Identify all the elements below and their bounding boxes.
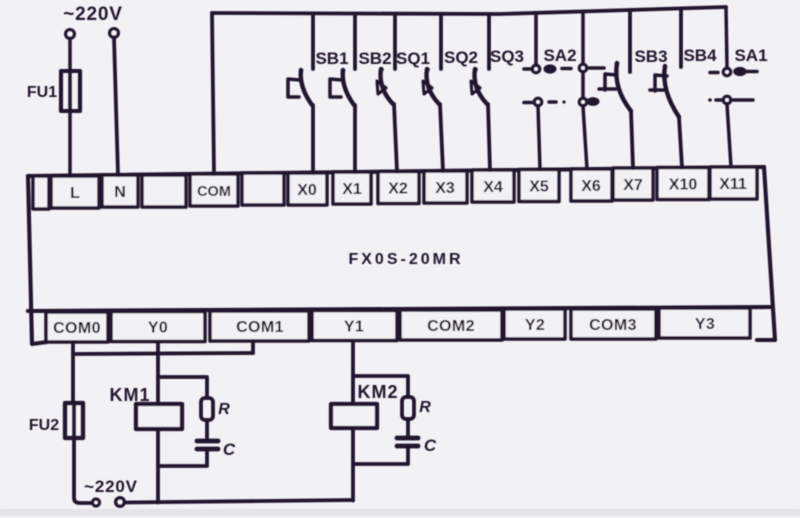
wire N supply to terminal N: [114, 38, 118, 176]
terminal X1: [333, 172, 371, 204]
limit switch SQ2 (X3 input): [423, 14, 443, 171]
terminal Y1: [312, 311, 397, 341]
terminal Y0: [111, 312, 205, 342]
blade pivot knobs: [299, 61, 668, 73]
terminal COM2: [400, 310, 502, 340]
svg-text:X7: X7: [623, 177, 643, 194]
terminal COM3: [571, 309, 656, 339]
svg-text:C: C: [223, 440, 236, 459]
svg-text:FX0S-20MR: FX0S-20MR: [348, 251, 463, 268]
svg-text:COM3: COM3: [589, 317, 637, 334]
output terminal row boxes: [46, 308, 750, 342]
wire bus to terminal COM: [212, 13, 214, 174]
svg-text:COM2: COM2: [427, 318, 475, 335]
selector switch SA1 (X11 input): [708, 7, 757, 167]
terminal Y3: [659, 308, 750, 338]
wire SA2 to terminal X6: [583, 106, 587, 169]
svg-text:COM1: COM1: [236, 319, 284, 336]
terminal X6: [571, 169, 612, 201]
svg-text:Y3: Y3: [695, 316, 715, 333]
svg-text:FU2: FU2: [29, 417, 59, 434]
fuse FU2: [65, 403, 83, 438]
SA1 contact row 2: [708, 98, 712, 102]
capacitor C1: [197, 441, 218, 449]
wire bus end to SA1: [726, 7, 727, 68]
terminal X0: [288, 173, 327, 205]
svg-text:SB1: SB1: [315, 49, 348, 68]
svg-text:N: N: [114, 184, 126, 201]
svg-text:COM: COM: [197, 184, 231, 200]
svg-text:L: L: [70, 185, 80, 202]
wire Y1 branch to R2: [353, 376, 408, 397]
svg-text:FU1: FU1: [27, 84, 57, 101]
terminal X11: [710, 167, 757, 199]
svg-text:X10: X10: [669, 177, 698, 194]
bottom return wire: [125, 500, 353, 503]
svg-text:X6: X6: [581, 178, 601, 195]
terminal X10: [657, 168, 709, 200]
terminal COM1: [210, 311, 309, 341]
pushbutton SB1 (X0 input): [288, 13, 313, 173]
wire C2 return to Y1 branch: [353, 446, 408, 464]
svg-text:X3: X3: [435, 180, 455, 197]
SA2 contact row 2: [524, 101, 533, 105]
input terminal row boxes: [33, 167, 757, 209]
terminal L: [51, 176, 99, 208]
svg-text:Y0: Y0: [148, 320, 168, 337]
svg-text:SB2: SB2: [358, 49, 391, 68]
svg-text:SA1: SA1: [734, 46, 767, 65]
svg-text:X1: X1: [342, 181, 362, 198]
input terminal labels: [70, 176, 747, 202]
terminal N: [102, 175, 138, 207]
terminal circle L supply: [66, 30, 75, 39]
SA2 contact row 1: [524, 67, 531, 71]
svg-text:X0: X0: [297, 182, 317, 199]
wire C1 return to Y0 branch: [158, 449, 207, 466]
supply terminal circle right: [116, 498, 125, 507]
svg-text:SA2: SA2: [543, 46, 576, 65]
wire COM1 stub: [251, 341, 255, 353]
pushbutton SB3 (X7 input): [599, 10, 633, 168]
terminal COM0: [46, 312, 108, 342]
terminal X2: [378, 172, 419, 204]
svg-text:X5: X5: [529, 179, 549, 196]
wire SA2 to terminal X5: [538, 106, 540, 170]
svg-text:~220V: ~220V: [63, 4, 122, 25]
svg-text:SQ2: SQ2: [444, 48, 478, 67]
terminal X4: [472, 170, 514, 202]
wire bus to SA2 pole A: [534, 13, 538, 64]
SA2 pole B link: [581, 72, 585, 98]
svg-text:X11: X11: [719, 176, 747, 193]
scan shading bottom edge: [0, 509, 800, 516]
terminal circle N supply: [110, 29, 119, 38]
svg-text:Y1: Y1: [344, 319, 364, 336]
svg-text:SQ3: SQ3: [490, 47, 524, 66]
selector switch SA2 (X5/X6 inputs): [524, 11, 604, 169]
wire bus to SA2 pole B: [581, 11, 585, 63]
jumper wire COM0 to COM1: [73, 353, 253, 354]
PLC body outline FX0S-20MR: [28, 167, 775, 344]
switch labels row: [315, 46, 767, 68]
blank terminal leftmost: [33, 176, 49, 209]
blank terminal: [242, 173, 284, 205]
SA1 contact row 1: [710, 71, 718, 75]
svg-text:R: R: [419, 399, 431, 416]
resistor R1: [201, 398, 213, 420]
blank terminal: [142, 175, 186, 207]
wire FU2 to supply terminal: [74, 438, 91, 503]
wire R1 to C1: [205, 420, 209, 440]
wire COM0 down: [71, 342, 75, 403]
wire Y1 down: [351, 341, 355, 501]
wire Y0 down: [156, 342, 160, 503]
supply terminal circle left: [92, 499, 99, 506]
top bus wire (COM rail): [212, 7, 726, 14]
svg-text:X4: X4: [483, 179, 503, 196]
svg-text:~220V: ~220V: [84, 477, 138, 496]
terminal Y2: [504, 309, 565, 339]
limit switch SQ3 (X4 input): [471, 14, 490, 170]
terminal COM: [190, 174, 238, 206]
wire L supply to fuse: [68, 39, 72, 72]
pushbutton SB2 (X1 input): [330, 14, 355, 173]
wire SA1 to terminal X11: [727, 104, 731, 167]
limit switch SQ1 (X2 input): [377, 14, 397, 172]
fuse FU1: [61, 71, 80, 111]
resistor R2: [402, 397, 414, 419]
pushbutton SB4 (X10 input): [650, 8, 682, 167]
output terminal labels: [53, 316, 715, 337]
contactor coil KM1: [136, 404, 182, 429]
wire Y0 branch to R1: [158, 377, 207, 398]
svg-text:KM2: KM2: [357, 382, 398, 402]
terminal X7: [613, 168, 653, 200]
wire R2 to C2: [406, 419, 410, 437]
svg-text:SB4: SB4: [683, 46, 717, 65]
svg-text:C: C: [424, 436, 437, 455]
terminal X3: [424, 171, 467, 203]
svg-text:SQ1: SQ1: [396, 49, 430, 68]
svg-text:X2: X2: [388, 181, 408, 198]
svg-text:R: R: [218, 401, 230, 418]
contactor coil KM2: [331, 404, 377, 428]
capacitor C2: [397, 438, 418, 446]
svg-text:COM0: COM0: [53, 320, 101, 337]
svg-text:Y2: Y2: [525, 317, 545, 334]
wire fuse FU1 to terminal L: [68, 111, 72, 176]
terminal X5: [519, 170, 559, 202]
svg-text:SB3: SB3: [634, 47, 667, 66]
